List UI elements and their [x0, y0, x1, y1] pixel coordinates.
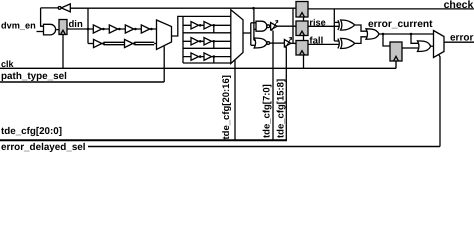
tap row 1: wire: [183, 24, 231, 26]
wire TDE fall out to FF4 D: [291, 42, 296, 44]
node dot: [199, 55, 202, 58]
node dot: [382, 33, 385, 36]
node dot clk crossing: [163, 67, 165, 69]
wire FF4 Q to XOR2: [308, 43, 339, 45]
flip-flop FF2 (check): [296, 2, 308, 18]
tap row 3: wire: [183, 56, 231, 58]
wire stub to NOR bottom: [251, 44, 255, 46]
NOR output bubble: [267, 42, 270, 45]
buffer T2a: [191, 38, 199, 45]
NAND output bubble: [267, 25, 270, 28]
wire dvm_en to AND gate: [37, 31, 44, 33]
clk rail: [0, 67, 396, 69]
tunable delay element TDE rise: [271, 23, 277, 30]
buffer A1: [93, 25, 101, 33]
node dot: [213, 55, 216, 58]
node vertical (tap feed): [182, 16, 184, 63]
wire clk rail end up to FF5: [395, 61, 397, 68]
wire row B lead: [88, 43, 94, 45]
wire din node vertical: [87, 8, 89, 43]
buffer A3: [125, 25, 133, 33]
wire XOR2 out jog to OR2: [355, 37, 367, 44]
mux M2 (coarse delay select): [231, 10, 243, 64]
svg-text:error_delayed_sel: error_delayed_sel: [1, 142, 86, 153]
flip-flop FF3 (rise): [296, 21, 308, 36]
svg-text:tde_cfg[20:16]: tde_cfg[20:16]: [221, 75, 232, 139]
node dot: [102, 28, 105, 31]
mux M3 (error delayed select): [434, 31, 445, 58]
AND gate U1: [44, 24, 56, 35]
error_delayed_sel rail: [88, 146, 440, 148]
wire stub to XOR2 top: [334, 40, 339, 42]
tap row 2: wire: [183, 40, 231, 42]
wire FF3 clk: [303, 36, 305, 41]
OR gate U7: [418, 41, 431, 52]
wire mux M3 select to error_delayed_sel rail: [439, 55, 440, 147]
wire tap line C to mux M2: [183, 47, 231, 49]
wire inverter output to AND: [41, 7, 59, 9]
mux M1 (path select): [157, 20, 172, 50]
wire stub to NOR top: [253, 39, 256, 41]
flip-flop FF4 (fall): [296, 41, 308, 56]
svg-text:path_type_sel: path_type_sel: [1, 71, 67, 82]
OR gate U6 (error_current): [366, 29, 379, 39]
node dot: [199, 24, 202, 27]
node vertical B: [253, 8, 255, 40]
wire mux M1 select to path_type_sel rail: [163, 46, 165, 82]
buffer T3b: [204, 53, 212, 60]
wire FF4 clk to clk rail: [303, 55, 305, 68]
svg-text:tde_cfg[7:0]: tde_cfg[7:0]: [261, 84, 272, 138]
wire FF5 clk to clk rail: [395, 61, 397, 68]
wire FF3 Q to XOR1: [308, 25, 339, 27]
node vertical A: [250, 23, 252, 46]
check rail from FF2 Q: [308, 8, 474, 10]
wire FF5 Q to OR3: [402, 47, 418, 49]
buffer T2b: [204, 38, 212, 45]
wire error_current to mux M3: [379, 33, 434, 35]
tunable delay element TDE fall: [284, 40, 290, 47]
node dot: [213, 24, 216, 27]
node dot: [134, 28, 137, 31]
wire stub to XOR1 top: [334, 21, 339, 23]
node dot: [199, 40, 202, 43]
wire tap 2 down branch: [213, 41, 215, 48]
node din junction dot: [87, 28, 90, 31]
svg-text:error_current: error_current: [368, 19, 433, 30]
buffer B1: [94, 39, 102, 47]
wire tap 1 down branch: [213, 25, 215, 33]
wire OR3 out to mux M3: [431, 45, 434, 47]
svg-text:error_d: error_d: [450, 32, 474, 43]
buffer T1a: [191, 22, 199, 29]
wire pair segment 1: [104, 42, 125, 44]
svg-text:tde_cfg[15:8]: tde_cfg[15:8]: [275, 79, 286, 138]
NAND gate U2: [256, 21, 267, 31]
wire check branch down to XOR gates: [333, 9, 335, 41]
XOR gate U4: [338, 20, 339, 30]
wire TDE rise out to FF3 D: [277, 25, 296, 27]
wire into mux M1 lower input: [154, 43, 156, 45]
buffer T3a: [191, 53, 199, 60]
node dot: [118, 28, 121, 31]
flip-flop FF5 (error delayed): [390, 42, 402, 61]
svg-text:dvm_en: dvm_en: [1, 20, 36, 30]
wire tap line B to mux M2: [183, 32, 231, 34]
wire NOR out to TDE fall: [270, 42, 285, 44]
node dot: [150, 28, 153, 31]
node dot: [133, 42, 136, 45]
wire mux M1 output jog: [172, 16, 184, 36]
bus wire tde_cfg[15:8]: [285, 47, 287, 140]
wire mux M3 output: [444, 41, 474, 43]
tde_cfg rail: [0, 139, 287, 141]
bus wire tde_cfg[7:0]: [272, 31, 274, 141]
wire branch to OR3 top: [411, 34, 418, 43]
wire FF2 clk: [303, 17, 305, 21]
wire pair segment 2: [134, 42, 154, 44]
wire mux M2 select to tde_cfg[20:16]: [234, 60, 236, 141]
inverter INV1 (feedback): [61, 4, 70, 12]
NOR gate U3: [254, 38, 267, 48]
node dot: [213, 40, 216, 43]
XOR gate U5: [338, 39, 339, 49]
svg-text:tde_cfg[20:0]: tde_cfg[20:0]: [1, 126, 62, 137]
wire tap line D to mux M2: [183, 62, 231, 64]
wire AND output to FF1 D: [56, 29, 59, 31]
wire inverter input / din sample rail to FF2: [70, 7, 296, 9]
wire stub to NAND top: [251, 22, 256, 24]
buffer T1b: [204, 22, 212, 29]
wire stub to NAND bottom: [254, 28, 256, 30]
svg-text:check: check: [444, 0, 474, 11]
svg-text:clk: clk: [1, 59, 15, 69]
buffer A2: [109, 25, 117, 33]
wire FF1 clock to clk rail: [62, 35, 64, 69]
node dot: [252, 7, 255, 10]
wire tap line A to mux M2: [183, 15, 231, 17]
wire XOR1 out jog to OR2: [355, 25, 367, 31]
wire feedback vertical into AND top input: [41, 8, 44, 26]
path_type_sel rail: [0, 81, 164, 83]
wire tap 3 down branch: [213, 57, 215, 63]
wire mux M2 output: [243, 32, 251, 34]
wire branch to FF5 D: [383, 34, 390, 46]
buffer B2: [125, 39, 133, 47]
node dot: [410, 33, 413, 36]
node vertical C before FF column: [292, 8, 294, 43]
wire din to delay row A: [67, 28, 157, 30]
buffer A4: [141, 25, 149, 33]
flip-flop FF1 (din): [59, 20, 67, 35]
node dot: [102, 42, 105, 45]
